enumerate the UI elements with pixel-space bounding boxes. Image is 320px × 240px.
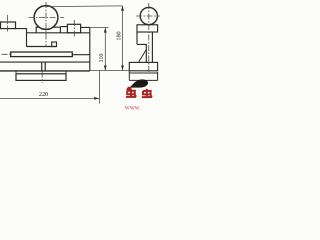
svg-text:180: 180 (115, 31, 122, 40)
svg-text:WWW.: WWW. (125, 105, 141, 110)
svg-text:110: 110 (98, 53, 105, 62)
svg-text:220: 220 (39, 91, 48, 98)
